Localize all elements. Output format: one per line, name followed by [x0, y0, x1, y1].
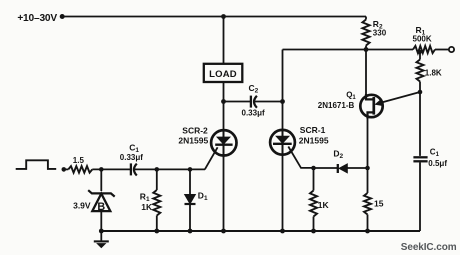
terminal open circle R1 [449, 47, 454, 52]
node junction load/C2 branch [221, 99, 226, 104]
wire SCR-1 cathode to rail [282, 155, 284, 231]
capacitor C1 0.33uf [120, 142, 143, 175]
svg-text:1K: 1K [318, 200, 330, 210]
thyristor SCR-1 2N1595 [270, 125, 329, 156]
resistor 1.5 [66, 156, 92, 173]
svg-text:D1: D1 [198, 191, 208, 203]
node junction 1K tap [311, 166, 316, 171]
terminal +10-30V [17, 13, 64, 24]
diode D2 [314, 149, 368, 173]
svg-text:2N1671-B: 2N1671-B [318, 101, 355, 110]
zener diode 3.9V [73, 169, 115, 231]
wire Q1 emitter lead [376, 92, 420, 106]
wire SCR-2 gate diagonal [205, 147, 218, 169]
thyristor SCR-2 2N1595 [178, 125, 236, 157]
capacitor C1 0.5uf [413, 92, 447, 231]
svg-text:C1: C1 [129, 142, 139, 154]
svg-text:0.5μf: 0.5μf [428, 159, 447, 168]
node junction SCR-1 / rail [280, 229, 285, 234]
svg-text:SeekIC.com: SeekIC.com [401, 242, 457, 253]
svg-text:LOAD: LOAD [209, 69, 237, 80]
node junction R2 / bus [364, 47, 369, 52]
resistor R2 330 [362, 17, 386, 50]
svg-text:1.8K: 1.8K [425, 69, 442, 78]
svg-text:C1: C1 [430, 148, 440, 159]
wire SCR-1 anode vertical [282, 50, 284, 131]
svg-text:SCR-2: SCR-2 [182, 125, 208, 135]
diode D1 [185, 169, 208, 231]
ground [94, 231, 109, 248]
wire R2 to Q1 base-2 [365, 50, 367, 95]
svg-text:0.33μf: 0.33μf [120, 153, 143, 162]
svg-text:Q1: Q1 [346, 91, 356, 102]
pulse input waveform symbol [16, 160, 57, 169]
wire top supply rail [65, 16, 367, 18]
wire SCR-2 cathode to rail [223, 157, 225, 232]
capacitor C2 0.33uf [242, 83, 265, 117]
node junction R1 1K tap [155, 167, 160, 172]
svg-text:C2: C2 [249, 83, 259, 95]
terminal input dot [62, 167, 67, 172]
wire C2 branch left segment [224, 101, 251, 103]
wire load bottom to SCR-2 anode [223, 82, 225, 131]
svg-text:2N1595: 2N1595 [178, 135, 208, 145]
node junction 1.8K / emitter / C1 [418, 90, 423, 95]
wire load top lead [223, 17, 225, 64]
node junction 15 / rail [365, 229, 370, 234]
transistor Q1 2N1671-B (UJT) [318, 91, 383, 119]
svg-text:SCR-1: SCR-1 [300, 125, 326, 135]
wire gate line middle segment [134, 168, 205, 170]
svg-text:330: 330 [373, 28, 387, 37]
node junction zener tap [99, 167, 104, 172]
resistor R1 1K [140, 169, 161, 231]
node junction D1 gate line [188, 167, 193, 172]
svg-text:2N1595: 2N1595 [299, 135, 329, 145]
node junction R1 1K / rail [154, 229, 159, 234]
node junction 1K / rail [311, 229, 316, 234]
resistor 1.8K [417, 51, 442, 92]
svg-text:1.5: 1.5 [73, 156, 85, 165]
wire horizontal bus to R1 500K [283, 49, 414, 51]
node junction D1 / rail [188, 229, 193, 234]
svg-text:1K: 1K [141, 202, 153, 212]
svg-text:500K: 500K [413, 35, 432, 44]
node junction zener / ground rail [99, 229, 104, 234]
svg-text:3.9V: 3.9V [73, 201, 91, 211]
svg-text:+10–30V: +10–30V [17, 13, 57, 24]
resistor R1 500K [413, 25, 449, 53]
wire C2 branch right segment [254, 101, 283, 103]
svg-text:0.33μf: 0.33μf [242, 109, 265, 118]
svg-text:15: 15 [374, 199, 384, 209]
node junction top rail / load branch [221, 14, 226, 19]
resistor 1K [310, 168, 330, 231]
node junction R1 / 1.8K tap [418, 50, 422, 54]
wire bottom ground rail [101, 230, 420, 232]
wire gate line left segment [92, 168, 130, 170]
node junction 15 tap [365, 166, 370, 171]
node junction C2 / SCR-1 anode [280, 99, 285, 104]
LOAD box [204, 64, 243, 82]
resistor 15 [364, 168, 384, 231]
node junction SCR-2 / rail [221, 229, 226, 234]
wire Q1 base-1 to D2 node [367, 118, 369, 169]
svg-text:D2: D2 [333, 149, 343, 161]
wire SCR-1 gate diagonal [288, 147, 313, 168]
